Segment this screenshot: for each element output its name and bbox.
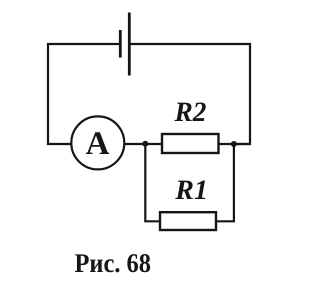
resistor R1 body xyxy=(160,212,216,230)
resistor R2 body xyxy=(162,134,219,153)
wire: right branch down from node B to R1 xyxy=(216,144,234,221)
wire: R2 right lead to right side xyxy=(219,143,250,145)
wire: left branch down from node A to R1 xyxy=(145,144,160,221)
battery B1 short plate (negative) xyxy=(119,30,122,58)
svg-text:R2: R2 xyxy=(174,97,207,128)
svg-text:A: A xyxy=(86,126,110,162)
battery B1 long plate (positive) xyxy=(128,13,131,76)
node A junction dot xyxy=(142,141,148,147)
wire: ammeter to resistor R2 through node A xyxy=(125,143,163,145)
ammeter A circle xyxy=(71,116,124,169)
svg-text:Рис. 68: Рис. 68 xyxy=(75,248,152,278)
wire: top-left loop from battery minus, left side down to ammeter xyxy=(48,44,120,144)
node B junction dot xyxy=(231,141,237,147)
wire: top-right from battery plus, right side down to node B xyxy=(129,44,250,144)
svg-text:R1: R1 xyxy=(174,175,208,206)
